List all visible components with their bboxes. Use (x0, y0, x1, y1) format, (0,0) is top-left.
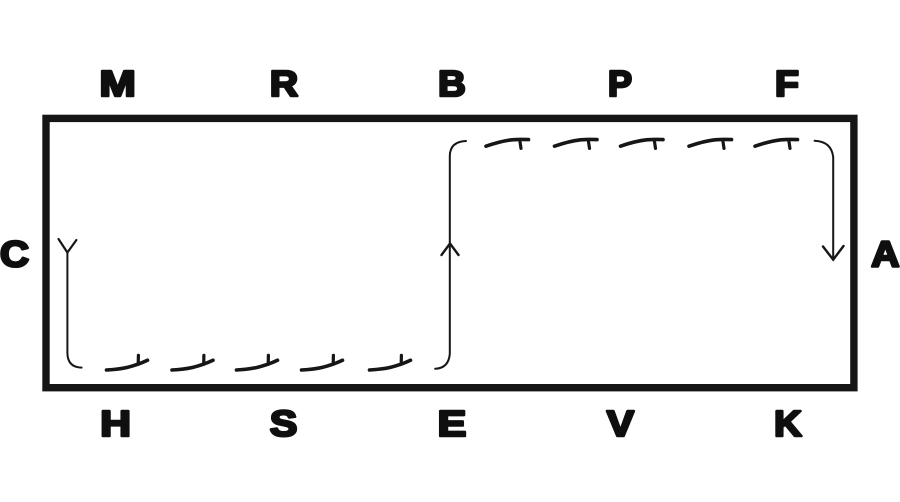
bottom stride hook 2 (172, 360, 213, 370)
entry line from C down to track (67, 253, 81, 368)
down arrowhead near A (823, 246, 844, 260)
svg-text:P: P (608, 63, 632, 104)
svg-text:B: B (438, 63, 466, 104)
svg-text:C: C (0, 234, 29, 275)
top stride hook 4 (689, 139, 732, 146)
bottom stride hook 4 (302, 360, 343, 370)
up arrowhead on centre line (442, 244, 459, 256)
svg-text:K: K (774, 403, 802, 444)
bottom stride hook 1 (107, 360, 148, 370)
bottom stride hook 5 (370, 360, 411, 370)
svg-text:R: R (270, 63, 298, 104)
top stride hook 3 (621, 139, 664, 146)
svg-text:V: V (607, 403, 634, 444)
arena border (46, 118, 854, 387)
centre line at E (435, 141, 466, 369)
top stride hook 5 (755, 139, 798, 146)
svg-text:M: M (100, 63, 136, 104)
svg-text:E: E (438, 403, 467, 444)
bottom stride hook 3 (237, 360, 278, 370)
top stride hook 1 (486, 139, 529, 146)
svg-text:S: S (270, 403, 297, 444)
svg-text:F: F (775, 63, 799, 104)
svg-text:H: H (100, 403, 131, 444)
top stride hook 2 (555, 139, 598, 146)
exit line to A (815, 141, 834, 258)
svg-text:A: A (871, 234, 899, 275)
start fork Y near C (59, 239, 77, 253)
